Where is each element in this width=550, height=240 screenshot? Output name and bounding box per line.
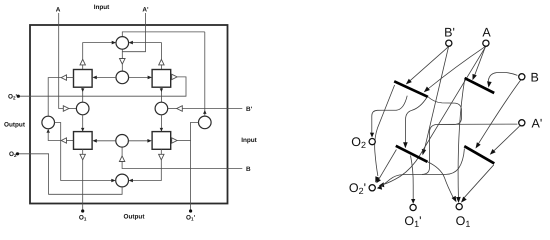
- wire bar S3 right end to O1: [427, 162, 454, 199]
- arrow open left at TL square output: [61, 75, 66, 80]
- wire B hook to synapse bar S2: [488, 72, 518, 83]
- svg-text:O1': O1': [186, 215, 196, 222]
- arrow filled onto bar S3 from routed wire: [403, 142, 408, 148]
- wire triangle to CM1 top: [121, 64, 123, 71]
- multiplier square TR: [152, 70, 171, 88]
- arrow filled onto bar S3 from B': [422, 149, 426, 155]
- svg-text:Output: Output: [124, 214, 146, 221]
- arrow filled into BR square left: [147, 139, 151, 143]
- wire TL output down to CL2: [48, 78, 61, 117]
- synapse bar S3: [396, 146, 428, 162]
- synapse bar S4: [464, 146, 494, 163]
- arrow filled into CT right: [129, 41, 133, 45]
- arrow filled onto bar S1 from A: [424, 87, 430, 93]
- arrow filled onto bar S2 from B: [487, 81, 492, 87]
- arrow filled up on CR2 stub: [203, 110, 206, 114]
- arrow open right at BR square output: [172, 138, 177, 143]
- wire CM2 bottom stub: [121, 147, 123, 156]
- arrow filled into CB left: [111, 179, 115, 183]
- wire central routed S-curve: [427, 96, 462, 125]
- arrow open right on A wire: [63, 106, 69, 112]
- terminal dot O2: [16, 152, 19, 155]
- wire up-triangle to TL square top: [82, 65, 84, 70]
- wire TL square bottom to CL1: [82, 87, 84, 102]
- summer circle CT: [116, 37, 129, 50]
- wire BL square bottom stub: [82, 149, 84, 154]
- arrow filled down below TL square: [81, 88, 84, 92]
- wire B' input line: [182, 108, 242, 110]
- wire TL left triangle to square: [67, 77, 74, 79]
- wire A to synapse bar S2: [474, 47, 485, 77]
- wire BR square to right triangle: [171, 140, 172, 142]
- wire bar S4 hook to O2': [381, 149, 465, 187]
- wire TR square top to CT right: [133, 43, 162, 60]
- synapse bar S1: [394, 81, 428, 97]
- arrow filled into O2' diagonal: [376, 178, 381, 183]
- arrow filled into BL square top: [81, 128, 84, 132]
- arrow filled into O2' from above: [375, 176, 379, 182]
- svg-text:O1': O1': [404, 214, 421, 229]
- wire bar S1 routed to O2: [372, 96, 407, 134]
- wire CL1 down to BL square: [82, 115, 84, 132]
- terminal circle A: [483, 40, 489, 46]
- arrow filled into O1 diagonal: [452, 196, 457, 202]
- arrow open down below BR square: [159, 154, 164, 160]
- wire TR square to right triangle: [171, 76, 172, 78]
- summer circle CB: [116, 174, 129, 187]
- svg-text:B': B': [246, 106, 253, 113]
- wire BL output up to CL2: [48, 132, 61, 141]
- outer box: [30, 25, 228, 204]
- wire A' branch to summer CT top: [122, 32, 205, 37]
- svg-text:Input: Input: [241, 137, 257, 144]
- terminal dot O1: [81, 209, 84, 212]
- arrow filled onto bar S2 from A: [473, 74, 477, 80]
- wire A' horizontal routed down: [422, 124, 517, 174]
- wire input A' vertical: [122, 13, 145, 52]
- summer circle CR1: [155, 102, 168, 115]
- arrow open left on B' wire: [177, 106, 183, 112]
- wire CR2 top to B' line: [204, 109, 206, 117]
- wire CM2 to BR square left: [128, 140, 147, 142]
- terminal circle B': [446, 40, 452, 46]
- wire up-triangle to TR square top: [160, 65, 162, 70]
- wire B' to synapse bar S3: [424, 47, 449, 152]
- arrow filled down below TR square: [160, 88, 163, 92]
- arrow filled onto bar S4 from B: [476, 142, 481, 148]
- arrow open up above TL square: [80, 59, 85, 65]
- multiplier square BL: [74, 132, 93, 150]
- terminal circle O2': [369, 185, 375, 191]
- wire bar S3 left end to O2': [379, 150, 397, 180]
- terminal circle A': [519, 120, 525, 126]
- svg-text:A': A': [532, 116, 543, 130]
- wire A long diagonal to O2': [383, 47, 486, 185]
- summer circle CR2: [199, 116, 212, 129]
- arrow filled into O1 from bar S4: [461, 197, 467, 203]
- arrow open up above TR square: [159, 59, 164, 65]
- summer circle CM2: [116, 135, 129, 148]
- arrow filled onto bar S1 from B': [406, 79, 412, 85]
- terminal dot O2': [17, 95, 20, 98]
- wire TR square bottom to CR1: [160, 87, 162, 102]
- terminal circle B: [519, 74, 525, 80]
- arrow open left at BL square output: [61, 138, 66, 143]
- wire B input line: [122, 162, 242, 169]
- arrow filled into CB right: [129, 179, 133, 183]
- svg-text:B': B': [444, 26, 455, 40]
- wire A' arc to synapse bar S4: [492, 126, 520, 153]
- arrow filled down into O2: [370, 133, 374, 138]
- wire B to synapse bar S4: [477, 80, 521, 146]
- svg-text:O1: O1: [79, 215, 87, 222]
- wire BR square bottom stub: [160, 149, 162, 154]
- wire input A vertical: [59, 13, 64, 109]
- svg-text:A: A: [482, 26, 491, 40]
- arrow open down into CM1: [120, 59, 126, 65]
- terminal circle O1': [410, 204, 416, 210]
- arrow filled into TL square right: [92, 76, 96, 80]
- synapse bar S2: [465, 78, 495, 93]
- wire bar S1 right routed to bar S3: [406, 98, 427, 144]
- svg-text:A: A: [56, 7, 61, 14]
- wire O1 output vertical: [82, 160, 84, 210]
- arrow filled into O1': [411, 199, 415, 204]
- wire CM1 to TL square right: [97, 76, 116, 78]
- wire CR1 down to BR square: [160, 115, 162, 132]
- arrow filled onto bar S4 from A': [490, 149, 496, 155]
- svg-text:Input: Input: [94, 4, 110, 11]
- terminal circle O2: [369, 139, 375, 145]
- wire bar S4 underside to O1: [463, 165, 494, 199]
- wire A to synapse bar S1: [429, 46, 486, 88]
- wire TL square top to CT left: [83, 43, 112, 60]
- arrow filled into BR square top: [160, 128, 163, 132]
- terminal circle O1: [456, 204, 462, 210]
- wire A arrow to circle CL1: [69, 108, 77, 110]
- wire BR down to CB right: [133, 160, 162, 181]
- wire bar S3 down to O1': [411, 156, 414, 201]
- wire CM1 to TR square left: [129, 76, 148, 78]
- arrow filled into O1 from bar S2: [456, 197, 461, 203]
- svg-text:B: B: [531, 70, 539, 84]
- wire CR2 up to CT branch: [204, 32, 206, 109]
- multiplier square TL: [74, 70, 93, 88]
- wire bar S2 left end down to O1: [458, 80, 464, 201]
- summer circle CM1: [116, 71, 129, 84]
- terminal dot O1': [189, 209, 192, 212]
- arrow filled into O2' upper right: [379, 182, 385, 187]
- svg-text:Output: Output: [4, 122, 26, 129]
- svg-text:O2: O2: [9, 151, 17, 158]
- arrow open down below BL square: [80, 154, 85, 160]
- multiplier square BR: [152, 132, 171, 150]
- wire CL2 output to CB: [55, 123, 112, 181]
- wire O2' from TR output to left terminal: [18, 77, 186, 96]
- arrow filled into TR square left: [148, 76, 152, 80]
- arrow filled into O2' right side: [377, 185, 382, 190]
- arrow open right at TR square output: [172, 74, 177, 79]
- wire BR output to O1' vertical: [177, 140, 191, 142]
- wire CB output to O2 terminal: [18, 154, 123, 195]
- arrow open up into CM2 from B: [119, 156, 124, 162]
- summer circle CL2: [42, 116, 55, 129]
- svg-text:O2': O2': [349, 181, 366, 196]
- wire CR2 left to O1' vertical: [191, 122, 199, 209]
- wire B' arrow to CR1: [168, 108, 177, 110]
- wire CM2 to BL square right: [97, 140, 116, 142]
- svg-text:O2': O2': [8, 94, 18, 101]
- wire CT bottom to amp triangle: [121, 49, 123, 58]
- arrow filled up into CL2 bottom: [47, 129, 50, 133]
- arrow filled into CT left: [112, 41, 116, 45]
- wire B' to synapse bar S1: [410, 46, 449, 81]
- svg-text:A': A': [142, 7, 149, 14]
- wire BL left triangle to square: [67, 140, 74, 142]
- wire bar S1 left end to O2': [375, 85, 395, 176]
- svg-text:B: B: [246, 166, 251, 173]
- arrow filled into BL square right: [92, 139, 96, 143]
- summer circle CL1: [76, 102, 89, 115]
